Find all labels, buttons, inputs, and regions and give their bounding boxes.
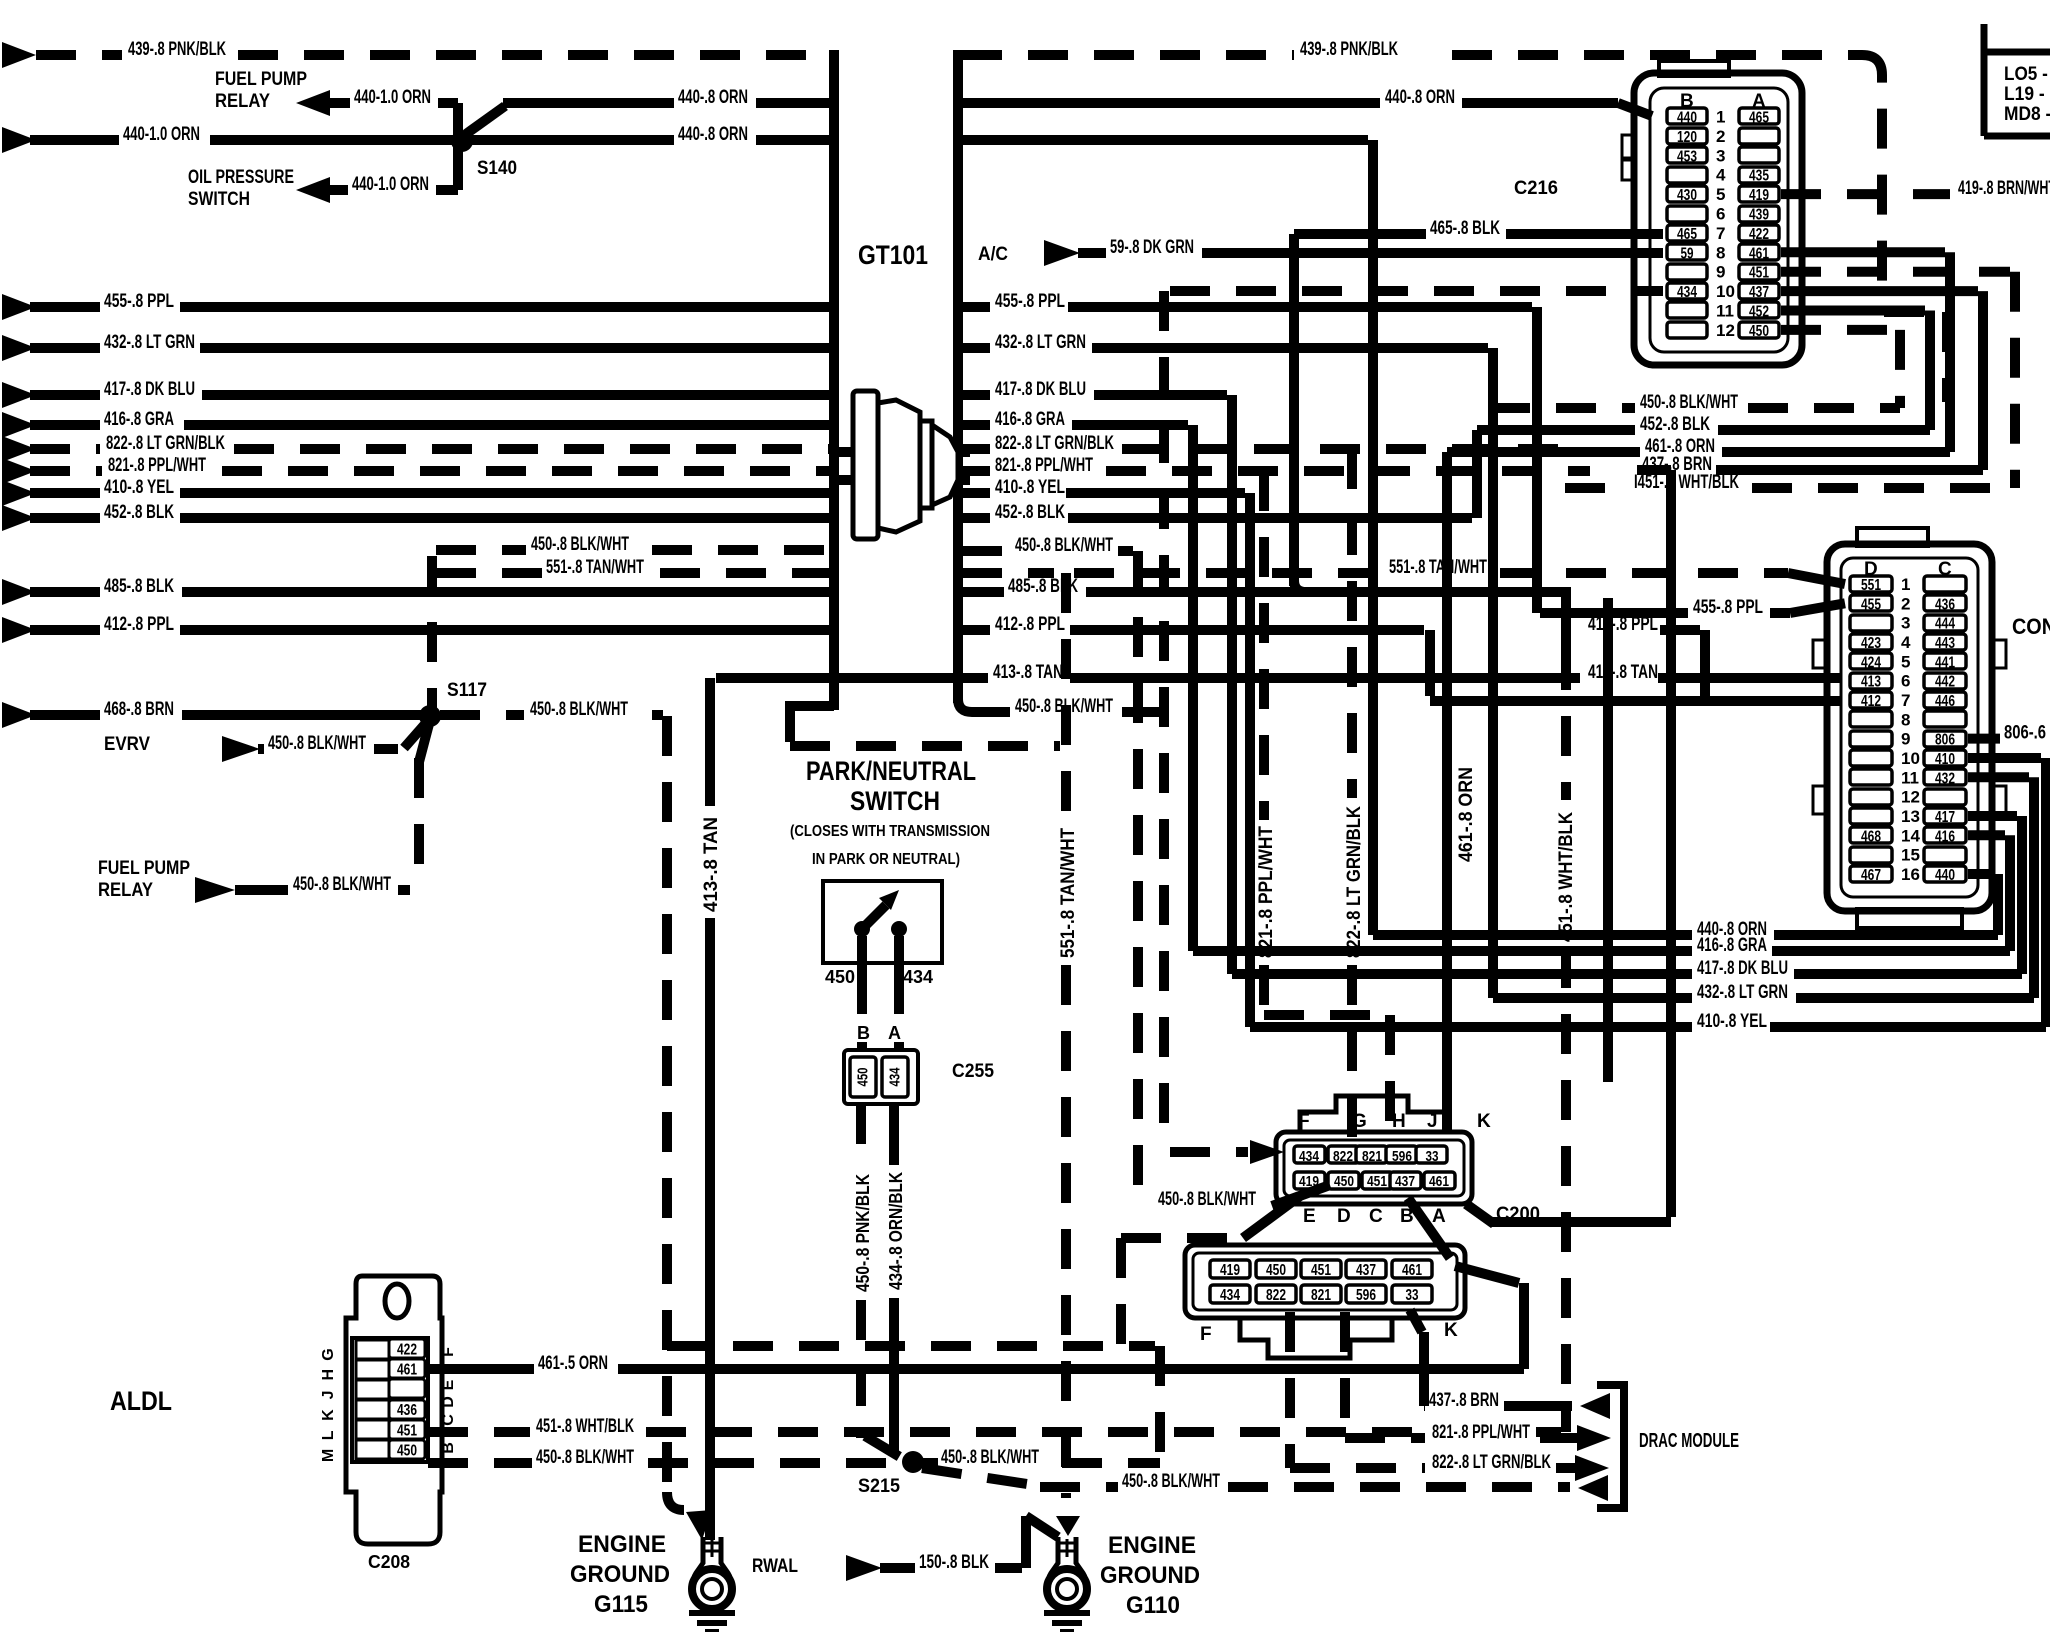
svg-text:416: 416 bbox=[1935, 828, 1955, 845]
svg-text:452-.8 BLK: 452-.8 BLK bbox=[104, 502, 174, 523]
svg-text:K: K bbox=[320, 1409, 337, 1421]
svg-text:432-.8 LT GRN: 432-.8 LT GRN bbox=[1697, 982, 1788, 1003]
svg-text:C200: C200 bbox=[1496, 1204, 1540, 1225]
connector C216 left side notches bbox=[1622, 135, 1636, 158]
wire 450-.8 BLK/WHT right of S215 (dashed) bbox=[922, 1458, 938, 1468]
arrow into engine ground G110 bbox=[1056, 1516, 1080, 1536]
svg-text:11: 11 bbox=[1901, 768, 1919, 787]
connector right-middle row 7 bbox=[1850, 692, 1892, 708]
connector C216 row 11 bbox=[1667, 302, 1707, 318]
wire 485/451 vertical (dashed below) bbox=[1556, 592, 1566, 650]
svg-text:EVRV: EVRV bbox=[104, 734, 150, 755]
svg-text:450-.8 BLK/WHT: 450-.8 BLK/WHT bbox=[1122, 1471, 1220, 1492]
wire 461 from C216 pin A8 loop bbox=[1781, 247, 1945, 257]
wire 432-.8 LT GRN bottom bus bbox=[1493, 993, 1692, 1003]
wire 450-.8 BLK/WHT dashed horizontal y1346 bbox=[667, 1341, 1155, 1351]
svg-text:436: 436 bbox=[1935, 596, 1955, 613]
wire 461-.8 ORN vertical to C200 bbox=[1442, 452, 1452, 1132]
wire 465-.8 BLK from vertical to C216 pin B7 bbox=[1289, 234, 1299, 586]
svg-text:450: 450 bbox=[855, 1068, 872, 1087]
svg-text:G110: G110 bbox=[1126, 1592, 1180, 1619]
svg-text:16: 16 bbox=[1901, 865, 1920, 884]
wire 455-.8 PPL left bbox=[2, 294, 36, 320]
wire from C200 pin B/437 down to in-line connector bbox=[1408, 1198, 1450, 1258]
wire 450 from C216 pin A12 loop (dashed) bbox=[1781, 325, 1895, 335]
wire 439-.8 PNK/BLK (top, dashed) with source arrow bbox=[2, 42, 36, 68]
wire 440 from pin C16 loop bbox=[1968, 869, 1993, 879]
svg-text:596: 596 bbox=[1392, 1148, 1412, 1165]
svg-text:FUEL PUMP: FUEL PUMP bbox=[215, 69, 307, 90]
svg-text:822-.8 LT GRN/BLK: 822-.8 LT GRN/BLK bbox=[995, 433, 1114, 454]
wire 432-.8 LT GRN right of wall bbox=[962, 343, 990, 353]
wire 821 from in-line connector down (dashed) bbox=[1340, 1312, 1350, 1438]
svg-text:L19 - EI: L19 - EI bbox=[2004, 84, 2050, 105]
wire 455 vertical to connector bbox=[1532, 307, 1542, 613]
svg-text:434-.8 ORN/BLK: 434-.8 ORN/BLK bbox=[886, 1172, 906, 1290]
in-line connector pin boxes bbox=[1210, 1260, 1250, 1278]
wire 821 dashed jog to C200 pin H bbox=[1264, 1010, 1385, 1020]
splice S215 bbox=[902, 1451, 924, 1473]
connector C216 row 2 bbox=[1667, 128, 1707, 144]
wire 440-.8 ORN right of wall (to C216 pin B1) bbox=[962, 98, 1380, 108]
wire 412-.8 PPL left bbox=[2, 617, 36, 643]
wire 416-.8 GRA left bbox=[2, 412, 36, 438]
wire 439 route dashes near C216 right bbox=[1884, 307, 1942, 317]
svg-text:A: A bbox=[1432, 1206, 1446, 1227]
svg-text:GT101: GT101 bbox=[858, 240, 928, 270]
connector ALDL row K bbox=[356, 1420, 389, 1439]
wire 417-.8 DK BLU right of wall bbox=[962, 390, 990, 400]
svg-text:K: K bbox=[1477, 1111, 1491, 1132]
wire 822-.8 LT GRN/BLK to DRAC module bbox=[1290, 1463, 1425, 1473]
svg-text:11: 11 bbox=[1716, 302, 1734, 321]
wire from C200 pin E down-left (dashed) bbox=[1243, 1196, 1300, 1238]
connector C216 row 12 bbox=[1667, 322, 1707, 338]
svg-text:4: 4 bbox=[1716, 166, 1726, 185]
wire 450-.8 PNK/BLK from C255 pin B (dashed) bbox=[856, 1104, 866, 1168]
svg-text:461: 461 bbox=[1429, 1173, 1449, 1190]
wire 437 route bottom elbow toward C200 bbox=[1490, 1217, 1671, 1227]
svg-text:3: 3 bbox=[1901, 614, 1910, 633]
connector right-middle row 8 bbox=[1850, 711, 1892, 727]
connector C216 shell bbox=[1659, 61, 1729, 76]
svg-text:F: F bbox=[1200, 1324, 1212, 1345]
svg-text:413: 413 bbox=[1861, 674, 1881, 691]
svg-text:1: 1 bbox=[1901, 575, 1910, 594]
connector right-middle row 3 bbox=[1850, 615, 1892, 631]
svg-text:455: 455 bbox=[1861, 596, 1881, 613]
wire 450-.8 BLK/WHT from splice S117 up to wall (dashed) bbox=[427, 556, 437, 708]
svg-text:G: G bbox=[1352, 1111, 1367, 1132]
svg-text:F: F bbox=[440, 1347, 457, 1357]
wire 452-.8 BLK left bbox=[2, 505, 36, 531]
svg-text:412-.8 PPL: 412-.8 PPL bbox=[995, 614, 1065, 635]
svg-text:5: 5 bbox=[1901, 652, 1910, 671]
svg-text:C255: C255 bbox=[952, 1061, 994, 1082]
svg-text:450: 450 bbox=[1266, 1262, 1286, 1279]
DRAC module bracket bbox=[1597, 1385, 1624, 1508]
svg-text:450-.8 BLK/WHT: 450-.8 BLK/WHT bbox=[531, 534, 629, 555]
wire 452 vertical up to loop bbox=[1472, 430, 1482, 518]
wire 440-1.0 ORN from left with source arrow bbox=[2, 127, 36, 153]
svg-text:434: 434 bbox=[903, 967, 933, 987]
svg-text:440-1.0 ORN: 440-1.0 ORN bbox=[354, 87, 431, 108]
svg-text:461-.8 ORN: 461-.8 ORN bbox=[1456, 767, 1477, 862]
svg-text:12: 12 bbox=[1716, 321, 1735, 340]
svg-text:822: 822 bbox=[1333, 1148, 1353, 1165]
svg-text:417-.8 DK BLU: 417-.8 DK BLU bbox=[104, 379, 195, 400]
wire 821-.8 PPL/WHT left (dashed) bbox=[2, 458, 36, 484]
wire 806-.6 from pin C9 bbox=[1968, 734, 2000, 744]
wall left bottom elbow to dashed 450 route bbox=[790, 706, 834, 742]
svg-text:461: 461 bbox=[1402, 1262, 1422, 1279]
svg-text:551-.8 TAN/WHT: 551-.8 TAN/WHT bbox=[1058, 828, 1079, 958]
grommet GT101 body bbox=[853, 391, 958, 539]
svg-text:821-.8 PPL/WHT: 821-.8 PPL/WHT bbox=[1256, 826, 1277, 958]
svg-text:451: 451 bbox=[397, 1422, 417, 1439]
svg-text:416-.8 GRA: 416-.8 GRA bbox=[1697, 935, 1767, 956]
connector right-middle row 5 bbox=[1850, 653, 1892, 669]
svg-text:7: 7 bbox=[1716, 224, 1725, 243]
wire 417 vertical bbox=[1227, 395, 1237, 974]
engine ground G115 terminal bbox=[693, 1537, 730, 1585]
svg-text:G: G bbox=[320, 1348, 337, 1360]
svg-text:806-.6: 806-.6 bbox=[2004, 723, 2046, 744]
svg-text:LO5 - E: LO5 - E bbox=[2004, 64, 2050, 85]
svg-text:8: 8 bbox=[1901, 710, 1910, 729]
svg-text:450-.8 BLK/WHT: 450-.8 BLK/WHT bbox=[1158, 1189, 1256, 1210]
wire 451-.8 WHT/BLK mid-right (dashed) bbox=[1565, 483, 1630, 493]
svg-text:424: 424 bbox=[1861, 654, 1881, 671]
svg-text:S117: S117 bbox=[447, 680, 487, 701]
svg-text:ALDL: ALDL bbox=[110, 1386, 172, 1416]
wire 416 vertical bbox=[1188, 425, 1198, 951]
wire 450 dashed vertical x1160 down to ALDL 450 line bbox=[1155, 1346, 1165, 1463]
wire 437-.8 BRN to DRAC module bbox=[1424, 1401, 1425, 1411]
wire 440-.8 ORN bottom bus bbox=[1373, 930, 1692, 940]
svg-text:ENGINE: ENGINE bbox=[578, 1531, 666, 1558]
wire 821-.8 PPL/WHT right of wall (dashed) bbox=[962, 466, 990, 476]
svg-text:SWITCH: SWITCH bbox=[188, 189, 250, 210]
svg-text:435: 435 bbox=[1749, 168, 1769, 185]
wire 412-.8 PPL into connector pin D7 bbox=[1430, 696, 1840, 706]
svg-text:822-.8 LT GRN/BLK: 822-.8 LT GRN/BLK bbox=[1432, 1452, 1551, 1473]
connector right-middle row 14 bbox=[1850, 827, 1892, 843]
wire 410 from pin C10 loop bbox=[1968, 753, 2041, 763]
park/neutral switch box bbox=[823, 881, 942, 963]
svg-text:FUEL PUMP: FUEL PUMP bbox=[98, 858, 190, 879]
connector right-middle row 6 bbox=[1850, 673, 1892, 689]
svg-text:33: 33 bbox=[1406, 1287, 1419, 1304]
connector ALDL row H bbox=[356, 1360, 389, 1379]
svg-text:822-.8 LT GRN/BLK: 822-.8 LT GRN/BLK bbox=[106, 433, 225, 454]
svg-text:551: 551 bbox=[1861, 577, 1881, 594]
svg-text:10: 10 bbox=[1716, 282, 1735, 301]
in-line connector shell bbox=[1185, 1245, 1465, 1318]
connector right-middle row 4 bbox=[1850, 634, 1892, 650]
svg-text:2: 2 bbox=[1901, 594, 1910, 613]
svg-text:59: 59 bbox=[1681, 245, 1694, 262]
connector C216 row 1 bbox=[1667, 108, 1707, 124]
wire 452-.8 BLK mid-right bbox=[1477, 425, 1635, 435]
svg-text:443: 443 bbox=[1935, 635, 1955, 652]
svg-text:413-.8 TAN: 413-.8 TAN bbox=[993, 662, 1063, 683]
wire 432 from pin C11 loop bbox=[1968, 772, 2029, 782]
wire 450-.8 BLK/WHT right of wall (dashed) bbox=[962, 546, 1010, 556]
svg-text:417: 417 bbox=[1935, 809, 1955, 826]
wire 485-.8 BLK left bbox=[2, 579, 36, 605]
svg-text:452: 452 bbox=[1749, 304, 1769, 321]
connector C216 row 5 bbox=[1667, 186, 1707, 202]
svg-text:434: 434 bbox=[1220, 1287, 1240, 1304]
svg-text:412: 412 bbox=[1861, 693, 1881, 710]
connector right-middle row 15 bbox=[1850, 847, 1892, 863]
svg-text:410-.8 YEL: 410-.8 YEL bbox=[104, 477, 174, 498]
wire 410 vertical bbox=[1245, 493, 1255, 1027]
svg-text:465-.8 BLK: 465-.8 BLK bbox=[1430, 218, 1500, 239]
wire 551-.8 TAN/WHT right of wall (dashed) bbox=[962, 568, 1054, 578]
wire 551 dashed vertical down to ground G110 bbox=[1061, 573, 1071, 822]
svg-text:432: 432 bbox=[1935, 770, 1955, 787]
wire 822 from in-line connector down (dashed) bbox=[1285, 1312, 1295, 1468]
wire 452 from C216 pin A11 loop bbox=[1781, 306, 1925, 316]
svg-text:440: 440 bbox=[1677, 110, 1697, 127]
svg-text:452-.8 BLK: 452-.8 BLK bbox=[995, 502, 1065, 523]
svg-text:437: 437 bbox=[1395, 1173, 1415, 1190]
svg-text:450: 450 bbox=[825, 967, 855, 987]
svg-text:1: 1 bbox=[1716, 108, 1725, 127]
svg-text:465: 465 bbox=[1677, 226, 1697, 243]
svg-text:450-.8 BLK/WHT: 450-.8 BLK/WHT bbox=[530, 699, 628, 720]
connector right-middle shell bbox=[1827, 544, 1992, 911]
svg-text:440-1.0 ORN: 440-1.0 ORN bbox=[352, 174, 429, 195]
svg-text:10: 10 bbox=[1901, 749, 1920, 768]
svg-text:441: 441 bbox=[1935, 654, 1955, 671]
connector ALDL row J bbox=[356, 1400, 389, 1419]
svg-text:9: 9 bbox=[1901, 730, 1910, 749]
connector right-middle row 16 bbox=[1850, 866, 1892, 882]
wire 450-.8 BLK/WHT to DRAC module (dashed) bbox=[922, 1468, 1040, 1486]
svg-text:RWAL: RWAL bbox=[752, 1556, 798, 1577]
wire 822-.8 LT GRN/BLK right of wall (dashed) bbox=[962, 444, 990, 454]
svg-text:G115: G115 bbox=[594, 1591, 648, 1618]
wire 416-.8 GRA right of wall bbox=[962, 420, 990, 430]
wire 416 from pin C14 loop bbox=[1968, 830, 2005, 840]
svg-text:422: 422 bbox=[1749, 226, 1769, 243]
svg-text:451: 451 bbox=[1367, 1173, 1387, 1190]
svg-text:E: E bbox=[440, 1379, 457, 1390]
svg-text:437-.8 BRN: 437-.8 BRN bbox=[1429, 1390, 1499, 1411]
wire 416-.8 GRA bottom bus bbox=[1193, 946, 1692, 956]
svg-text:440-1.0 ORN: 440-1.0 ORN bbox=[123, 124, 200, 145]
svg-text:7: 7 bbox=[1901, 691, 1910, 710]
svg-text:822-.8 LT GRN/BLK: 822-.8 LT GRN/BLK bbox=[1344, 806, 1365, 958]
svg-text:413-.8 TAN: 413-.8 TAN bbox=[1588, 662, 1658, 683]
connector right-middle row 2 bbox=[1850, 595, 1892, 611]
legend box bbox=[1984, 24, 2050, 136]
wire 417 from pin C13 loop bbox=[1968, 811, 2017, 821]
svg-text:MD8 - A: MD8 - A bbox=[2004, 104, 2050, 125]
svg-text:C: C bbox=[1369, 1206, 1383, 1227]
svg-text:E: E bbox=[1303, 1206, 1316, 1227]
wire 434-.8 ORN/BLK from C255 pin A bbox=[889, 1104, 899, 1165]
svg-text:3: 3 bbox=[1716, 146, 1725, 165]
splice S140 bbox=[451, 130, 473, 152]
svg-text:437: 437 bbox=[1749, 284, 1769, 301]
connector right-middle row 11 bbox=[1850, 769, 1892, 785]
wire 450-.8 BLK/WHT from ALDL (dashed) bbox=[428, 1458, 532, 1468]
svg-text:485-.8 BLK: 485-.8 BLK bbox=[1008, 576, 1078, 597]
wire K 461 from in-line connector to 461-.5 ORN bbox=[1455, 1266, 1519, 1283]
svg-text:452-.8 BLK: 452-.8 BLK bbox=[1640, 414, 1710, 435]
wire 450 dashed vertical to C200 area bbox=[1133, 551, 1143, 1196]
svg-text:423: 423 bbox=[1861, 635, 1881, 652]
svg-text:822: 822 bbox=[1266, 1287, 1286, 1304]
svg-text:440-.8 ORN: 440-.8 ORN bbox=[1385, 87, 1455, 108]
wire 417-.8 DK BLU left bbox=[2, 382, 36, 408]
connector right-middle row 10 bbox=[1850, 750, 1892, 766]
svg-text:F: F bbox=[1298, 1111, 1310, 1132]
wire 417-.8 DK BLU bottom bus bbox=[1232, 969, 1692, 979]
svg-text:434: 434 bbox=[1677, 284, 1697, 301]
connector ALDL C208 shell bbox=[346, 1276, 442, 1544]
svg-text:14: 14 bbox=[1901, 826, 1920, 845]
wall left of grommet GT101 bbox=[829, 50, 839, 710]
wire 410-.8 YEL bottom bus bbox=[1250, 1022, 1692, 1032]
svg-text:450-.8 BLK/WHT: 450-.8 BLK/WHT bbox=[536, 1447, 634, 1468]
svg-text:453: 453 bbox=[1677, 148, 1697, 165]
svg-text:A/C: A/C bbox=[978, 244, 1008, 265]
svg-text:9: 9 bbox=[1716, 263, 1725, 282]
wire 455-.8 PPL right of wall bbox=[962, 302, 990, 312]
wire 450-.8 BLK/WHT mid-right (dashed) bbox=[1490, 403, 1635, 413]
svg-text:33: 33 bbox=[1426, 1148, 1439, 1165]
svg-text:465: 465 bbox=[1749, 110, 1769, 127]
svg-text:OIL PRESSURE: OIL PRESSURE bbox=[188, 167, 294, 188]
svg-text:S140: S140 bbox=[477, 158, 517, 179]
svg-text:S215: S215 bbox=[858, 1476, 900, 1497]
wire 437 vertical x1671 bbox=[1666, 470, 1676, 1217]
wire 551-.8 TAN/WHT to connector pin D1 (dashed) bbox=[1074, 568, 1382, 578]
connector ALDL row L bbox=[356, 1440, 389, 1459]
wire 413-.8 TAN from vertical to connector pin D6 bbox=[716, 673, 988, 683]
svg-text:12: 12 bbox=[1901, 788, 1920, 807]
svg-text:D: D bbox=[440, 1396, 457, 1408]
svg-text:461: 461 bbox=[397, 1362, 417, 1379]
svg-text:5: 5 bbox=[1716, 185, 1725, 204]
svg-text:4: 4 bbox=[1901, 633, 1911, 652]
connector ALDL row I bbox=[356, 1380, 389, 1399]
svg-text:821-.8 PPL/WHT: 821-.8 PPL/WHT bbox=[995, 455, 1093, 476]
svg-text:J: J bbox=[320, 1390, 337, 1399]
connector right-middle row 1 bbox=[1850, 576, 1892, 592]
svg-text:461-.5 ORN: 461-.5 ORN bbox=[538, 1353, 608, 1374]
svg-text:596: 596 bbox=[1356, 1287, 1376, 1304]
svg-text:467: 467 bbox=[1861, 867, 1881, 884]
svg-text:120: 120 bbox=[1677, 129, 1697, 146]
svg-text:419: 419 bbox=[1749, 187, 1769, 204]
wire 410-.8 YEL left bbox=[2, 480, 36, 506]
svg-text:419-.8 BRN/WHT: 419-.8 BRN/WHT bbox=[1958, 178, 2050, 199]
wire 822-.8 LT GRN/BLK left (dashed) bbox=[2, 436, 36, 462]
svg-text:H: H bbox=[320, 1369, 337, 1381]
connector ALDL pin grid bbox=[352, 1338, 428, 1462]
wire 485-.8 BLK right of wall bbox=[962, 587, 1004, 597]
engine ground G110 terminal bbox=[1048, 1537, 1085, 1585]
svg-text:440-.8 ORN: 440-.8 ORN bbox=[678, 124, 748, 145]
grommet stub wires bbox=[838, 447, 853, 457]
svg-text:444: 444 bbox=[1935, 616, 1955, 633]
wire 551-.8 TAN/WHT left (dashed) bbox=[436, 568, 542, 578]
svg-text:RELAY: RELAY bbox=[98, 880, 153, 901]
svg-text:485-.8 BLK: 485-.8 BLK bbox=[104, 576, 174, 597]
svg-text:551-.8 TAN/WHT: 551-.8 TAN/WHT bbox=[1389, 557, 1487, 578]
svg-text:CON: CON bbox=[2012, 614, 2050, 639]
wire 461-.5 ORN from ALDL pin F bbox=[428, 1364, 534, 1374]
connector C216 row 6 bbox=[1667, 206, 1707, 222]
svg-text:M: M bbox=[320, 1449, 337, 1462]
svg-text:B: B bbox=[857, 1023, 870, 1043]
park/neutral switch contacts bbox=[854, 921, 870, 937]
svg-text:432-.8 LT GRN: 432-.8 LT GRN bbox=[104, 332, 195, 353]
wire 419-.8 BRN/WHT from C216 pin A5 (dashed) bbox=[1781, 189, 1950, 199]
wire 412-.8 PPL right of wall bbox=[962, 625, 990, 635]
connector ALDL row G bbox=[356, 1340, 389, 1359]
svg-text:439: 439 bbox=[1749, 207, 1769, 224]
wire 452-.8 BLK right of wall bbox=[962, 513, 990, 523]
svg-text:PARK/NEUTRAL: PARK/NEUTRAL bbox=[806, 756, 976, 786]
svg-text:439-.8 PNK/BLK: 439-.8 PNK/BLK bbox=[1300, 39, 1398, 60]
connector C216 row 7 bbox=[1667, 225, 1707, 241]
svg-text:451: 451 bbox=[1311, 1262, 1331, 1279]
svg-text:2: 2 bbox=[1716, 127, 1725, 146]
svg-text:417-.8 DK BLU: 417-.8 DK BLU bbox=[1697, 958, 1788, 979]
svg-text:432-.8 LT GRN: 432-.8 LT GRN bbox=[995, 332, 1086, 353]
connector C216 row 9 bbox=[1667, 264, 1707, 280]
connector C200 shell bbox=[1276, 1132, 1472, 1204]
svg-text:442: 442 bbox=[1935, 674, 1955, 691]
connector C216 row 8 bbox=[1667, 244, 1707, 260]
wall right bottom elbow bbox=[958, 699, 972, 712]
svg-text:821: 821 bbox=[1362, 1148, 1382, 1165]
svg-text:I451-.8 WHT/BLK: I451-.8 WHT/BLK bbox=[1634, 472, 1739, 493]
svg-text:B: B bbox=[440, 1442, 457, 1454]
wire 455-.8 PPL into pin D2 bbox=[1540, 608, 1688, 618]
wire 437 from C216 pin A10 loop bbox=[1781, 286, 1978, 296]
svg-text:430: 430 bbox=[1677, 187, 1697, 204]
svg-text:DRAC MODULE: DRAC MODULE bbox=[1639, 1430, 1739, 1452]
park/neutral switch pins 450 434 bbox=[857, 936, 867, 1014]
wire 440-.8 ORN upper right of S140 bbox=[466, 106, 505, 134]
svg-text:C216: C216 bbox=[1514, 178, 1558, 199]
svg-text:59-.8 DK GRN: 59-.8 DK GRN bbox=[1110, 237, 1194, 258]
svg-text:450-.8 PNK/BLK: 450-.8 PNK/BLK bbox=[853, 1174, 873, 1292]
svg-text:6: 6 bbox=[1901, 672, 1910, 691]
wire 450-.8 BLK/WHT dashed vertical x667 down to ground bbox=[662, 716, 672, 1502]
svg-text:434: 434 bbox=[887, 1067, 904, 1086]
svg-text:SWITCH: SWITCH bbox=[850, 786, 940, 816]
svg-text:GROUND: GROUND bbox=[1100, 1562, 1200, 1589]
svg-text:L: L bbox=[320, 1430, 337, 1440]
connector C200 pin boxes bbox=[1294, 1146, 1325, 1163]
wire 450-.8 BLK/WHT dashed from left wall elbow (park/neutral border) bbox=[790, 741, 1060, 751]
svg-text:437: 437 bbox=[1356, 1262, 1376, 1279]
svg-text:821: 821 bbox=[1311, 1287, 1331, 1304]
wire 434 dashed from C216 pin B10 to vertical x1164 bbox=[1170, 286, 1663, 296]
svg-text:6: 6 bbox=[1716, 205, 1725, 224]
svg-text:J: J bbox=[1427, 1111, 1438, 1132]
wire 413-.8 TAN vertical down to engine ground G115 bbox=[705, 678, 715, 806]
